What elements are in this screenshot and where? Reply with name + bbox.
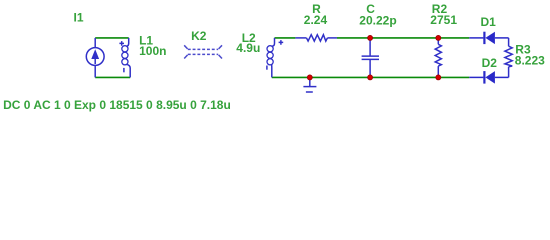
svg-text:2.24: 2.24 (304, 13, 328, 27)
svg-text:4.9u: 4.9u (236, 41, 260, 55)
svg-text:D2: D2 (482, 56, 498, 70)
svg-text:K2: K2 (191, 29, 207, 43)
svg-text:20.22p: 20.22p (359, 14, 396, 28)
svg-text:100n: 100n (139, 44, 166, 58)
svg-text:8.223: 8.223 (515, 54, 545, 68)
svg-text:2751: 2751 (430, 13, 457, 27)
svg-text:I1: I1 (74, 11, 84, 25)
svg-text:DC 0 AC 1 0 Exp 0 18515 0 8.95: DC 0 AC 1 0 Exp 0 18515 0 8.95u 0 7.18u (3, 98, 231, 112)
svg-text:D1: D1 (481, 15, 497, 29)
